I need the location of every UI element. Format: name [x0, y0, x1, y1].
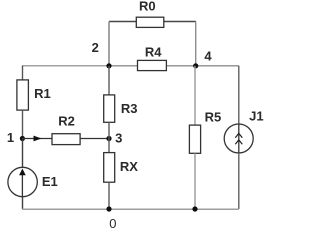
node 3 junction [106, 136, 111, 141]
svg-text:R5: R5 [205, 110, 222, 125]
label R1 [34, 86, 51, 101]
current direction arrow on node1-node3 wire [34, 136, 42, 142]
label R2 [58, 113, 75, 128]
svg-text:J1: J1 [249, 109, 263, 124]
wire left branch upper (corner y66 down to R1) [22, 66, 24, 80]
label R3 [121, 101, 138, 116]
wire bottom horizontal y=209 [22, 208, 239, 210]
svg-text:3: 3 [115, 130, 122, 145]
wire R4 to node 4 [167, 65, 196, 67]
node 2 junction [106, 63, 111, 68]
label R0 [139, 0, 156, 13]
wire R3 to node 3 [108, 122, 110, 152]
node 1 junction [20, 136, 25, 141]
wire node 1 down to E1 [22, 139, 24, 168]
wire node 1 to R2 with current arrow [22, 138, 52, 140]
resistor R2 [52, 134, 80, 145]
wire node 2 to R4 [109, 65, 138, 67]
wire R1 bottom to node 1 [22, 110, 24, 139]
resistor R0 [136, 17, 164, 27]
resistor R4 [138, 60, 167, 70]
node junction RX-bottom [106, 206, 111, 211]
node junction R5-bottom [192, 206, 197, 211]
svg-text:R2: R2 [58, 113, 75, 128]
wire RX to bottom wire [108, 182, 110, 209]
wire E1 to bottom left corner [22, 197, 24, 209]
resistor RX [104, 153, 115, 183]
label E1 [42, 174, 58, 189]
resistor R1 [17, 80, 29, 110]
label J1 [249, 109, 263, 124]
svg-text:R4: R4 [145, 44, 162, 59]
svg-text:2: 2 [92, 40, 99, 55]
label node 4 [204, 48, 212, 63]
node 4 junction [193, 63, 198, 68]
resistor R3 [104, 95, 115, 122]
resistor R5 [189, 125, 200, 153]
EMF source E1 [8, 167, 37, 196]
svg-text:R1: R1 [34, 86, 51, 101]
wire loop left vertical at node 2 [108, 22, 110, 67]
wire main horizontal y=66 left segment (corner to node 2) [22, 65, 109, 67]
label node 2 [92, 40, 99, 55]
wire J1 to bottom right corner [238, 153, 240, 209]
label node 1 [7, 130, 14, 145]
label R4 [145, 44, 162, 59]
svg-text:0: 0 [109, 216, 116, 231]
svg-text:4: 4 [204, 48, 212, 63]
svg-text:RX: RX [120, 159, 138, 174]
wire node 4 to top right corner [196, 65, 239, 67]
label node 3 [115, 130, 122, 145]
wire node 4 down to R5 [194, 66, 196, 125]
wire top loop horizontal (node 2 to node 4 via R0) [109, 21, 196, 23]
current source J1 [224, 124, 253, 153]
label R5 [205, 110, 222, 125]
label node 0 [109, 216, 116, 231]
wire R5 to bottom wire [194, 153, 196, 209]
wire top right corner down to J1 [238, 66, 240, 124]
svg-text:R3: R3 [121, 101, 138, 116]
svg-text:1: 1 [7, 130, 14, 145]
svg-text:E1: E1 [42, 174, 58, 189]
svg-text:R0: R0 [139, 0, 156, 13]
wire loop right vertical at node 4 [195, 22, 197, 67]
wire node 2 to R3 [108, 66, 110, 95]
wire R2 to node 3 [80, 138, 109, 140]
label RX [120, 159, 138, 174]
